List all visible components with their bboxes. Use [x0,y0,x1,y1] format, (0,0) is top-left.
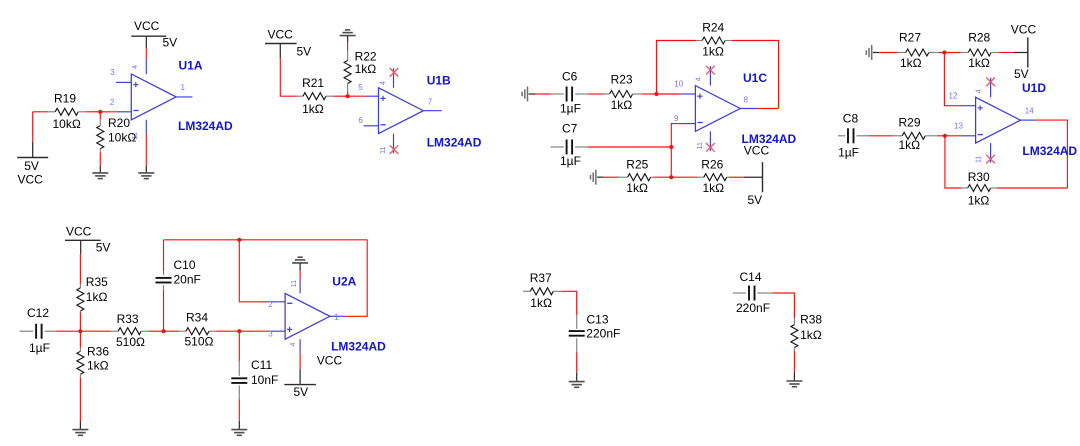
svg-text:1kΩ: 1kΩ [302,102,324,116]
svg-text:3: 3 [268,329,273,338]
svg-text:C6: C6 [562,70,578,84]
svg-text:R29: R29 [899,116,921,130]
svg-text:R36: R36 [87,345,109,359]
svg-text:1kΩ: 1kΩ [899,138,921,152]
svg-text:R28: R28 [968,31,990,45]
svg-text:1µF: 1µF [29,341,50,355]
svg-text:220nF: 220nF [586,326,620,340]
svg-text:11: 11 [697,142,704,149]
svg-text:C11: C11 [251,358,272,372]
svg-text:13: 13 [954,121,963,130]
svg-text:R30: R30 [968,170,990,184]
svg-text:VCC: VCC [744,144,770,158]
svg-text:U1C: U1C [743,71,767,85]
svg-text:R19: R19 [54,91,76,105]
svg-text:C12: C12 [27,306,49,320]
svg-text:U2A: U2A [332,274,356,288]
svg-text:4: 4 [696,77,703,81]
svg-text:R26: R26 [701,158,723,172]
svg-text:1: 1 [181,83,186,92]
svg-text:5V: 5V [96,241,111,255]
svg-text:9: 9 [674,114,679,123]
svg-text:C14: C14 [740,270,762,284]
svg-text:R20: R20 [108,116,130,130]
svg-text:LM324AD: LM324AD [1022,144,1077,158]
svg-text:2: 2 [268,300,273,309]
svg-text:20nF: 20nF [174,273,201,287]
svg-text:11: 11 [976,156,983,163]
svg-text:1kΩ: 1kΩ [87,358,109,372]
svg-text:10kΩ: 10kΩ [108,131,136,145]
svg-text:11: 11 [380,146,387,153]
svg-text:1: 1 [334,313,339,322]
svg-text:1kΩ: 1kΩ [702,44,724,58]
svg-text:LM324AD: LM324AD [178,119,233,133]
svg-text:R25: R25 [626,158,648,172]
svg-text:510Ω: 510Ω [116,335,145,349]
svg-text:1kΩ: 1kΩ [355,62,377,76]
svg-text:R24: R24 [702,21,724,35]
svg-text:C13: C13 [587,312,609,326]
svg-text:2: 2 [110,98,115,107]
svg-text:12: 12 [949,91,958,100]
svg-text:10kΩ: 10kΩ [53,117,81,131]
svg-text:5V: 5V [1014,67,1029,81]
svg-text:1µF: 1µF [560,154,581,168]
svg-text:LM324AD: LM324AD [427,135,482,149]
svg-text:R33: R33 [117,312,139,326]
svg-text:1kΩ: 1kΩ [968,193,990,207]
svg-text:4: 4 [380,81,387,85]
svg-text:C10: C10 [174,258,196,272]
svg-text:10nF: 10nF [251,373,278,387]
svg-text:VCC: VCC [18,172,44,186]
svg-text:5V: 5V [163,36,178,50]
svg-text:VCC: VCC [268,28,294,42]
svg-text:R27: R27 [899,31,921,45]
svg-text:5V: 5V [748,193,763,207]
svg-text:1µF: 1µF [560,101,581,115]
svg-text:VCC: VCC [317,354,343,368]
svg-text:R38: R38 [800,312,822,326]
svg-text:VCC: VCC [66,225,92,239]
svg-text:U1B: U1B [427,74,451,88]
svg-text:11: 11 [291,280,298,287]
svg-text:C8: C8 [843,111,859,125]
svg-text:10: 10 [674,80,683,89]
svg-text:4: 4 [132,65,139,69]
svg-text:R21: R21 [302,76,324,90]
svg-text:6: 6 [358,116,363,125]
svg-text:1kΩ: 1kΩ [86,290,108,304]
svg-text:1kΩ: 1kΩ [800,328,822,342]
svg-text:VCC: VCC [134,19,160,33]
svg-text:R34: R34 [186,310,208,324]
svg-text:1µF: 1µF [838,145,859,159]
svg-text:5: 5 [358,83,363,92]
svg-text:5V: 5V [294,385,309,399]
svg-text:U1D: U1D [1022,81,1046,95]
svg-text:5V: 5V [297,44,312,58]
svg-text:5V: 5V [24,159,39,173]
svg-text:R23: R23 [611,73,633,87]
svg-text:U1A: U1A [179,59,203,73]
svg-text:1kΩ: 1kΩ [626,181,648,195]
svg-text:VCC: VCC [1011,23,1037,37]
svg-text:R37: R37 [530,271,552,285]
svg-text:1kΩ: 1kΩ [703,181,725,195]
svg-text:1kΩ: 1kΩ [530,296,552,310]
svg-text:510Ω: 510Ω [185,334,214,348]
svg-text:14: 14 [1025,106,1034,115]
svg-text:R35: R35 [86,275,108,289]
svg-text:C7: C7 [562,122,578,136]
svg-text:3: 3 [110,68,115,77]
svg-text:1kΩ: 1kΩ [968,56,990,70]
svg-text:7: 7 [428,98,433,107]
svg-text:LM324AD: LM324AD [331,340,386,354]
svg-text:1kΩ: 1kΩ [611,98,633,112]
svg-text:8: 8 [744,96,749,105]
svg-text:4: 4 [290,342,297,346]
svg-text:4: 4 [976,89,983,93]
svg-text:220nF: 220nF [736,301,770,315]
svg-text:1kΩ: 1kΩ [900,56,922,70]
